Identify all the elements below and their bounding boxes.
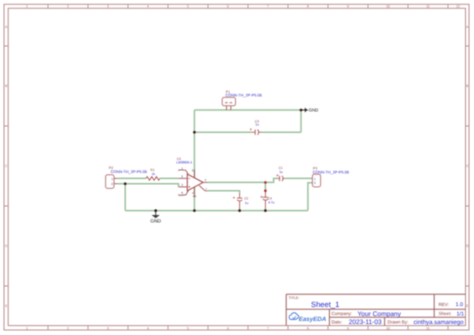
svg-text:1.0: 1.0 (456, 302, 464, 308)
P3 pin 2 (311, 182, 314, 184)
U1 pin number 3 (181, 183, 183, 187)
svg-text:7: 7 (205, 187, 207, 191)
P1 pin 1 (226, 106, 228, 110)
C4 value 4.7u (268, 201, 274, 205)
junction C3 rail left (193, 131, 196, 134)
junction U1 pin4 / ground rail (193, 209, 196, 212)
EasyEDA logo (289, 313, 327, 323)
C4 designator (268, 196, 272, 200)
svg-text:1: 1 (26, 326, 28, 330)
wire C3 rail left segment (194, 131, 252, 133)
junction C4 / ground rail (264, 209, 267, 212)
svg-text:2: 2 (67, 326, 69, 330)
svg-text:10: 10 (386, 5, 390, 9)
wire output node down to C4 (264, 182, 266, 190)
svg-text:4: 4 (147, 326, 149, 330)
svg-text:10: 10 (386, 326, 390, 330)
svg-text:1/1: 1/1 (457, 311, 465, 317)
svg-text:11: 11 (426, 5, 430, 9)
svg-text:9: 9 (347, 5, 349, 9)
C3 designator (255, 120, 259, 124)
title block value cinthya.samaniego (414, 319, 465, 326)
svg-text:1u: 1u (279, 170, 283, 174)
svg-text:TITLE:: TITLE: (289, 296, 300, 300)
title block label Drawn By (388, 319, 409, 324)
svg-text:2023-11-03: 2023-11-03 (349, 319, 382, 326)
U1 pin 2 (inverting) (179, 177, 188, 179)
svg-text:C2: C2 (244, 197, 248, 201)
op-amp U1 (187, 174, 203, 191)
R1 value 1k (152, 172, 156, 176)
title block label REV (439, 302, 449, 307)
svg-text:Drawn By:: Drawn By: (388, 319, 409, 324)
svg-text:GND: GND (309, 108, 319, 113)
svg-text:12: 12 (456, 5, 460, 9)
svg-text:Sheet:: Sheet: (439, 311, 452, 316)
U1 pin 5 (output) (203, 181, 208, 183)
connector P1 (222, 97, 235, 105)
junction C2 / ground rail (238, 209, 241, 212)
U1 pin number 8 (181, 191, 183, 195)
U1 pin 3 (non-inverting) (179, 186, 188, 188)
wire right vertical (GND port to C3 rail) (300, 110, 302, 132)
node output/C4 tee (red pin dot) (264, 181, 267, 184)
U1 pin 7 (bypass) (199, 186, 207, 191)
title block value 1/1 (457, 311, 465, 317)
svg-text:3: 3 (107, 326, 109, 330)
U1 pin 1 (gain) (179, 170, 189, 175)
wire R1 to U1 pin2 (160, 177, 179, 179)
title block label Company (332, 311, 353, 316)
capacitor C1 (276, 174, 285, 181)
U1 pin number 7 (205, 187, 207, 191)
capacitor C3 (250, 128, 261, 135)
svg-text:Company:: Company: (332, 311, 353, 316)
C2 designator (244, 197, 248, 201)
svg-text:Your Company: Your Company (358, 311, 402, 318)
svg-text:1k: 1k (152, 172, 156, 176)
svg-text:11: 11 (426, 326, 430, 330)
svg-text:CONN-TH_2P-P5.08: CONN-TH_2P-P5.08 (313, 170, 349, 175)
wire P2 pin2 to U1 pin3 with jog (117, 184, 178, 187)
title block value Your Company (358, 311, 402, 318)
wire bottom ground rail (125, 210, 308, 212)
P3 pin 1 (311, 177, 314, 179)
U1 pin number 1 (181, 167, 183, 171)
ground symbol GND (bottom left) (150, 211, 161, 225)
svg-text:LM386N-1: LM386N-1 (176, 161, 192, 165)
R1 designator (150, 168, 154, 172)
svg-text:Sheet_1: Sheet_1 (311, 300, 339, 309)
svg-text:5: 5 (187, 5, 189, 9)
wire C1 to P3 pin1 (285, 177, 312, 179)
svg-text:9: 9 (347, 326, 349, 330)
P2 pin 1 (114, 177, 117, 179)
svg-text:E: E (5, 304, 8, 308)
wire U1 pin7 bypass to C2 (208, 191, 240, 194)
title block frame (286, 294, 465, 325)
connector P2 (106, 175, 114, 189)
title block label Sheet (439, 311, 452, 316)
junction top rail / GND port (300, 109, 303, 112)
wire left vertical (P1 rail to bottom rail, through U1 pins 6/4) (193, 110, 195, 211)
svg-text:REV:: REV: (439, 302, 449, 307)
svg-text:B: B (5, 84, 8, 88)
U1 value LM386N-1 (176, 161, 192, 165)
svg-text:6: 6 (227, 5, 229, 9)
P2 designator (109, 166, 113, 170)
resistor R1 (146, 177, 160, 181)
svg-text:2: 2 (67, 5, 69, 9)
node C4 top pin (red pin dot) (264, 189, 267, 192)
P1 value CONN-TH_2P-P5.08 (226, 92, 262, 97)
connector P3 (312, 174, 320, 187)
junction input net / ground drop (124, 182, 127, 185)
U1 designator (177, 157, 181, 161)
svg-text:CONN-TH_2P-P5.08: CONN-TH_2P-P5.08 (226, 92, 262, 97)
svg-text:8: 8 (181, 191, 183, 195)
svg-text:C: C (5, 164, 8, 168)
P3 designator (313, 167, 317, 171)
C2 value 1u (245, 201, 249, 205)
U1 pin number 5 (205, 178, 207, 182)
svg-text:8: 8 (307, 5, 309, 9)
svg-text:6: 6 (227, 326, 229, 330)
title block value Sheet_1 (311, 300, 339, 309)
svg-text:cinthya.samaniego: cinthya.samaniego (414, 319, 465, 326)
U1 pin 4 (gnd) (193, 187, 196, 196)
svg-text:D: D (5, 244, 8, 248)
U1 pin 6 (Vs) (194, 170, 196, 178)
svg-text:5: 5 (187, 326, 189, 330)
svg-text:8: 8 (307, 326, 309, 330)
P2 value CONN-TH_2P-P5.08 (111, 169, 147, 174)
title block label Date (332, 319, 343, 324)
title block value 2023-11-03 (349, 319, 382, 326)
U1 pin number 2 (181, 175, 183, 179)
P1 designator (226, 90, 230, 94)
U1 pin number 6 (192, 168, 194, 172)
C1 value 1u (279, 170, 283, 174)
wire ground drop from input net (124, 184, 126, 211)
wire P3 pin2 to ground rail (308, 183, 312, 211)
junction ground rail / GND stub (154, 209, 157, 212)
svg-text:5: 5 (205, 178, 207, 182)
C1 designator (279, 166, 283, 170)
svg-text:4: 4 (192, 191, 194, 195)
C3 value 1u (255, 123, 259, 127)
wire U1 output to C1 (208, 178, 277, 182)
svg-text:1u: 1u (245, 201, 249, 205)
wire top supply rail (194, 109, 301, 111)
svg-text:EasyEDA: EasyEDA (299, 316, 327, 323)
svg-text:A: A (5, 25, 8, 29)
svg-text:Date:: Date: (332, 319, 343, 324)
ground port GND (top right) (301, 108, 318, 113)
title block value 1.0 (456, 302, 464, 308)
svg-text:1u: 1u (255, 123, 259, 127)
svg-text:CONN-TH_2P-P5.08: CONN-TH_2P-P5.08 (111, 169, 147, 174)
svg-text:3: 3 (107, 5, 109, 9)
wire P2 pin1 to R1 (117, 177, 146, 179)
capacitor C2 (233, 194, 243, 211)
P3 value CONN-TH_2P-P5.08 (313, 170, 349, 175)
svg-text:4: 4 (147, 5, 149, 9)
wire C3 rail right segment (261, 131, 301, 133)
P2 pin 2 (114, 183, 117, 185)
svg-text:6: 6 (192, 168, 194, 172)
svg-text:GND: GND (150, 219, 161, 225)
U1 pin number 4 (192, 191, 194, 195)
svg-text:7: 7 (267, 326, 269, 330)
capacitor C4 (261, 191, 269, 211)
svg-text:7: 7 (267, 5, 269, 9)
svg-text:4.7u: 4.7u (268, 201, 274, 205)
U1 pin 8 (gain) (179, 190, 189, 195)
svg-text:1: 1 (26, 5, 28, 9)
P1 pin 2 (230, 106, 232, 110)
title block label TITLE (289, 296, 300, 300)
